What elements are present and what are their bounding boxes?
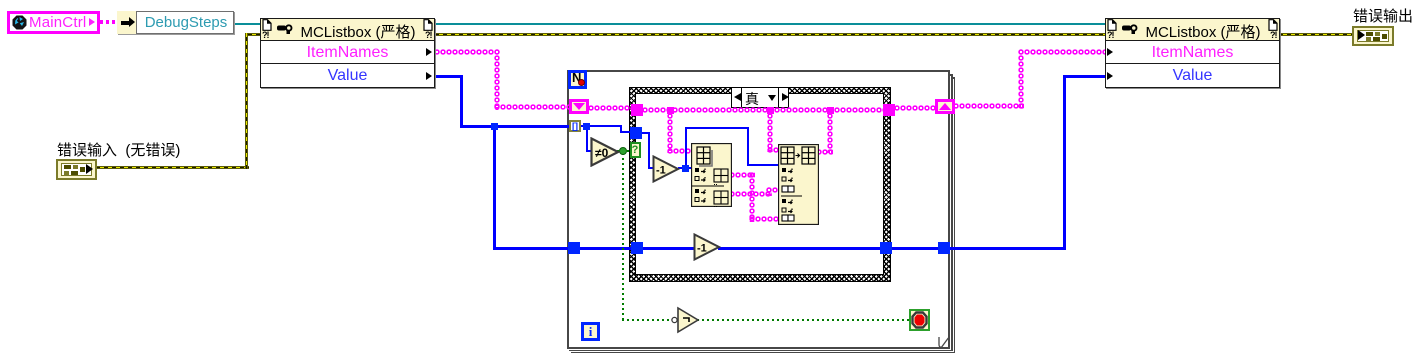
svg-text:≠0: ≠0 [595,146,609,160]
svg-text:-1: -1 [656,165,666,177]
svg-text:-1: -1 [697,243,707,255]
